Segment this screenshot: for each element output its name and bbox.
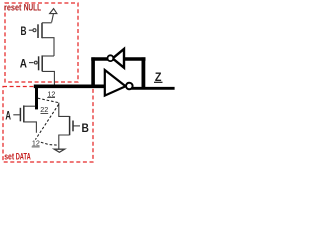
inverter U2 (weak keeper, points left) bbox=[108, 49, 125, 68]
leader dash 1 bbox=[38, 98, 59, 102]
svg-text:DATA: DATA bbox=[16, 151, 31, 161]
wire feedback right vertical (from output Z) bbox=[141, 57, 145, 88]
svg-text:A: A bbox=[5, 109, 11, 123]
reset NULL dashed box bbox=[5, 3, 78, 82]
svg-text:B: B bbox=[21, 24, 27, 38]
inverter U1 (output, points right) bbox=[105, 70, 133, 96]
wire thick stub down to NMOS drains bbox=[35, 85, 38, 110]
wire feedback top horizontal bbox=[91, 57, 145, 61]
wire feedback left vertical (node to keeper output) bbox=[91, 57, 95, 86]
svg-text:A: A bbox=[20, 56, 27, 70]
transistor N-B (NMOS, gate B) bbox=[59, 103, 80, 149]
ground arrow bbox=[54, 149, 64, 152]
svg-text:reset: reset bbox=[4, 3, 22, 14]
set DATA dashed box bbox=[3, 87, 93, 163]
wire internal node (thick horizontal) bbox=[34, 84, 105, 88]
wire output Z bbox=[132, 87, 175, 90]
svg-text:12: 12 bbox=[32, 139, 40, 148]
leader dash 3 bbox=[41, 142, 57, 145]
svg-text:B: B bbox=[82, 121, 90, 135]
transistor N-A (NMOS, gate A) bbox=[13, 105, 36, 132]
svg-text:12: 12 bbox=[47, 89, 55, 98]
svg-text:set: set bbox=[4, 151, 14, 161]
power VDD arrow bbox=[50, 9, 57, 23]
svg-text:22: 22 bbox=[40, 105, 48, 114]
leader dash 2 bbox=[35, 104, 58, 139]
transistor P-B (PMOS, gate B) bbox=[29, 23, 54, 56]
svg-text:NULL: NULL bbox=[24, 3, 42, 14]
transistor P-A (PMOS, gate A) bbox=[29, 55, 54, 84]
